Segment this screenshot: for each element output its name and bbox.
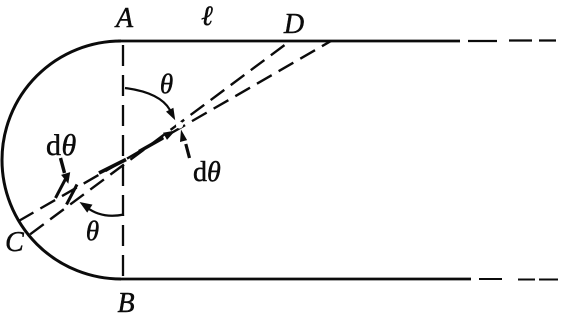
chord C-D at angle theta (dashed) — [29, 44, 287, 236]
lower theta angle arc with arrow — [80, 202, 125, 216]
bottom wall line dashed extension — [479, 278, 558, 281]
svg-text:A: A — [114, 3, 134, 34]
chord at angle theta+dtheta (dashed) — [19, 41, 331, 221]
svg-text:dθ: dθ — [193, 157, 221, 188]
top wall line solid — [118, 40, 460, 43]
d-theta arrow below P pointing up — [180, 130, 190, 159]
svg-text:θ: θ — [160, 69, 173, 99]
svg-text:D: D — [283, 9, 304, 40]
double tick marks marking d-theta between chords — [56, 178, 78, 205]
thick overlapping-chords stroke crossing the diameter — [99, 160, 126, 174]
upper theta angle arc with arrow — [125, 88, 175, 120]
bottom wall line solid — [121, 278, 471, 281]
svg-text:dθ: dθ — [46, 129, 77, 162]
top wall line dashed extension — [468, 39, 556, 42]
d-theta arrow upper-left pointing down to ticks — [61, 158, 71, 184]
svg-text:θ: θ — [86, 216, 99, 246]
semicircular cap arc — [2, 41, 121, 279]
diameter AB dashed line — [122, 45, 124, 277]
svg-text:C: C — [5, 227, 24, 258]
svg-text:B: B — [117, 288, 134, 316]
arrow along chord pointing to crossing point P — [139, 131, 176, 152]
svg-text:ℓ: ℓ — [201, 1, 213, 32]
white gap at chord crossing point — [176, 121, 183, 128]
